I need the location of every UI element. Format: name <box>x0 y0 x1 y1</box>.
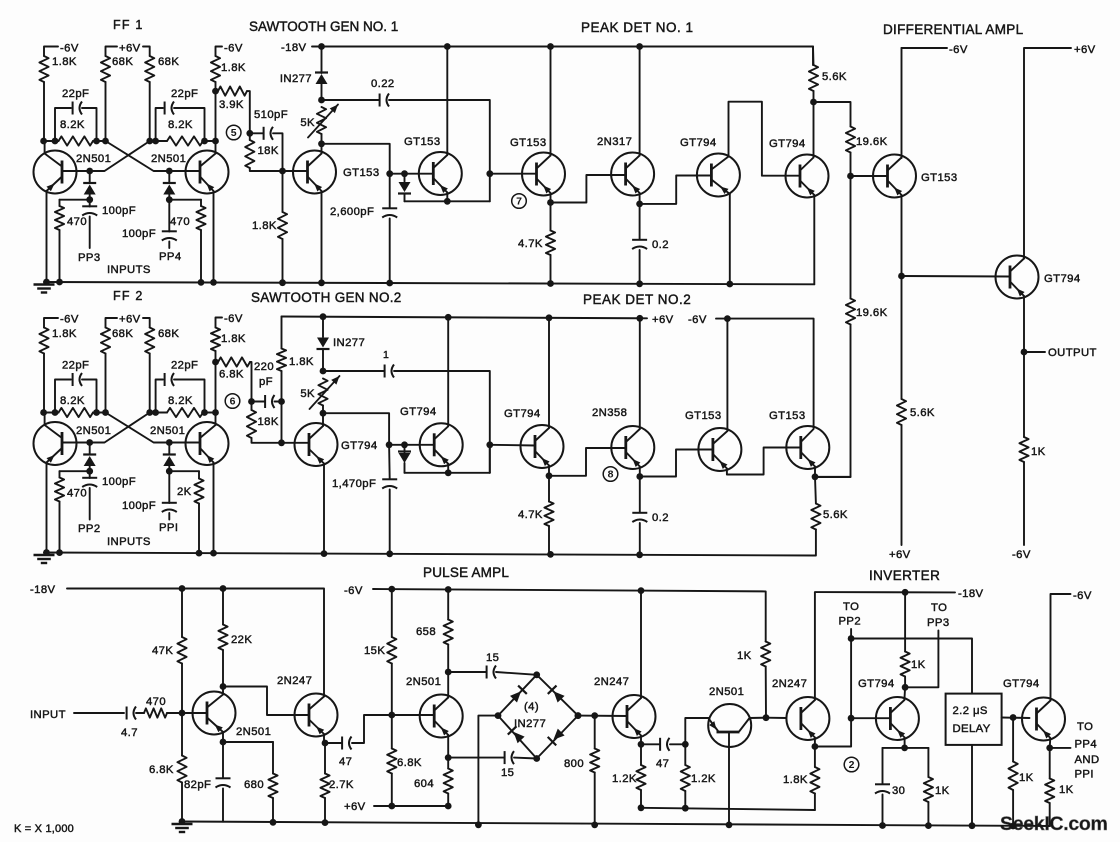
resistor 2K (FF2 right) <box>169 470 199 472</box>
wire collector to rail <box>639 318 641 429</box>
transistor 2N247 (bridge driver) <box>613 695 656 738</box>
wire <box>250 362 252 402</box>
svg-text:1.2K: 1.2K <box>612 773 637 785</box>
node 6 (circled) <box>225 394 240 409</box>
node dots top row rail <box>43 279 50 286</box>
wire emitter to rail <box>323 464 325 554</box>
svg-text:PP3: PP3 <box>78 252 101 264</box>
svg-text:2N247: 2N247 <box>594 676 629 688</box>
svg-text:+6V: +6V <box>344 801 366 813</box>
wire collector over to GT794 no2 base <box>729 102 801 176</box>
wire 2N501 bottom lead <box>728 732 730 825</box>
wire collector to +6V rail <box>447 317 449 426</box>
svg-text:PP3: PP3 <box>927 617 950 629</box>
svg-text:19.6K: 19.6K <box>856 307 888 319</box>
wire collector to 5.6K node <box>813 102 815 158</box>
node 8 (circled) <box>603 467 618 482</box>
svg-text:-6V: -6V <box>949 44 968 56</box>
resistor 1K (bridge driver load) <box>765 641 767 643</box>
svg-text:GT794: GT794 <box>341 440 378 452</box>
svg-text:68K: 68K <box>158 56 179 68</box>
resistor 1.8K (sawtooth 2 feed) <box>211 328 220 352</box>
capacitor 0.2 (peak det 2) <box>639 477 641 513</box>
resistor 1K (inverter 2 emitter) <box>1049 748 1051 779</box>
wire emitter <box>446 193 448 202</box>
resistor 1.8K (sawtooth 2 upper) <box>281 317 283 349</box>
transistor 2N247 (pulse ampl 1) <box>295 694 338 737</box>
resistor 1K (inverter emitter) <box>927 748 929 777</box>
wire 2N501 output lead <box>750 717 767 719</box>
resistor 19.6K (upper) <box>814 102 851 127</box>
svg-text:IN277: IN277 <box>333 337 365 349</box>
svg-text:68K: 68K <box>112 328 133 340</box>
svg-text:GT794: GT794 <box>680 137 717 149</box>
resistor 1K (inverter collector) <box>904 592 906 651</box>
svg-text:8.2K: 8.2K <box>60 119 85 131</box>
wire emitter <box>640 736 642 745</box>
svg-text:18K: 18K <box>258 416 279 428</box>
svg-text:100pF: 100pF <box>102 476 136 488</box>
svg-text:22K: 22K <box>231 634 252 646</box>
node 2 (circled) <box>844 757 859 772</box>
bridge diode top-left <box>510 691 521 702</box>
wire collector to node <box>215 413 217 426</box>
svg-text:AND: AND <box>1075 754 1100 766</box>
svg-text:PPI: PPI <box>1075 769 1094 781</box>
svg-text:GT153: GT153 <box>343 167 380 179</box>
svg-text:6.8K: 6.8K <box>219 369 244 381</box>
svg-text:1.2K: 1.2K <box>691 773 716 785</box>
wire emitter step to diff base <box>727 448 801 475</box>
resistor 680 <box>223 741 273 743</box>
transistor 2N247 (inverter) <box>786 697 829 740</box>
node 6.8K junction <box>212 359 219 366</box>
wire collector node to 1470pF branch <box>323 413 389 445</box>
svg-text:800: 800 <box>564 758 584 770</box>
wire coupling to 2N247 base <box>223 687 309 716</box>
resistor 18K (sawtooth 2) <box>251 402 253 411</box>
node dots middle row rail <box>43 549 50 556</box>
wire collector to -18V rail <box>814 592 816 700</box>
node diode top <box>401 170 408 177</box>
svg-text:4.7K: 4.7K <box>518 509 543 521</box>
svg-text:220: 220 <box>254 361 274 373</box>
net +6V (FF1) <box>106 47 118 57</box>
rail bottom (ground rail) <box>182 822 1050 827</box>
wire step to GT153 base <box>640 450 713 477</box>
capacitor 15 (lower) <box>504 751 506 764</box>
svg-text:2N247: 2N247 <box>772 678 807 690</box>
resistor 1.2K (right) <box>684 744 686 765</box>
svg-text:47: 47 <box>656 758 669 770</box>
svg-text:1K: 1K <box>911 659 926 671</box>
resistor 1.8K (sawtooth 1 bottom) <box>282 171 284 212</box>
rail top row bottom <box>44 282 814 284</box>
wire collector line FF1 right <box>150 140 167 142</box>
svg-text:100pF: 100pF <box>102 205 136 217</box>
svg-text:5.6K: 5.6K <box>910 407 935 419</box>
wire emitter node <box>814 467 816 477</box>
wire emitter down <box>901 195 903 276</box>
svg-text:+6V: +6V <box>119 314 141 326</box>
diode (sawtooth 1 clamp) <box>404 174 406 182</box>
wire emitter to rail <box>213 463 215 553</box>
wire emitter line sawtooth 1 <box>405 200 490 202</box>
svg-text:22pF: 22pF <box>62 88 89 100</box>
svg-text:GT153: GT153 <box>510 137 547 149</box>
diode (sawtooth 2 clamp) <box>404 445 406 453</box>
wire collector to node <box>215 141 217 154</box>
resistor 604 <box>447 758 449 769</box>
svg-text:+6V: +6V <box>652 314 674 326</box>
wire <box>149 82 151 141</box>
svg-text:GT794: GT794 <box>769 138 806 150</box>
svg-text:2N501: 2N501 <box>236 726 271 738</box>
capacitor 100pF (FF1 left) <box>89 200 91 207</box>
svg-text:TO: TO <box>843 601 859 613</box>
svg-text:604: 604 <box>414 778 434 790</box>
svg-text:2N501: 2N501 <box>76 425 111 437</box>
svg-text:IN277: IN277 <box>280 73 312 85</box>
wire collector to -18V rail <box>323 694 325 697</box>
svg-text:2N501: 2N501 <box>151 153 186 165</box>
resistor 68K (FF1 first) <box>101 56 110 82</box>
svg-text:-18V: -18V <box>958 588 984 600</box>
svg-text:INPUTS: INPUTS <box>107 264 151 276</box>
svg-text:1.8K: 1.8K <box>52 328 77 340</box>
wire collector <box>322 413 324 426</box>
svg-text:DIFFERENTIAL AMPL: DIFFERENTIAL AMPL <box>883 22 1024 37</box>
svg-text:2N501: 2N501 <box>76 153 111 165</box>
svg-text:1.8K: 1.8K <box>52 56 77 68</box>
wire emitter <box>550 193 552 203</box>
svg-text:pF: pF <box>259 376 273 388</box>
capacitor 47 (coupling) <box>341 737 343 750</box>
svg-text:6.8K: 6.8K <box>397 757 422 769</box>
wire collector to -6V rail <box>640 591 642 698</box>
svg-text:22pF: 22pF <box>171 360 198 372</box>
svg-text:1,470pF: 1,470pF <box>332 478 376 490</box>
wire emitter to rail <box>729 194 731 284</box>
resistor 18K (sawtooth 1) <box>249 133 251 140</box>
svg-text:OUTPUT: OUTPUT <box>1048 347 1097 359</box>
wire <box>247 91 250 133</box>
transistor GT153 (sawtooth 1 no2) <box>419 152 462 195</box>
transistor GT794 (emitter follower no2) <box>786 155 829 198</box>
svg-text:+6V: +6V <box>119 43 141 55</box>
transistor GT794 (inverter 2) <box>1022 698 1065 741</box>
svg-text:GT153: GT153 <box>685 410 722 422</box>
wire collector to -6V rail <box>726 319 728 431</box>
svg-text:TO: TO <box>1077 721 1093 733</box>
node FF2 left base <box>86 439 93 446</box>
bridge diode bottom-left <box>514 732 525 743</box>
wire emitter <box>639 467 641 477</box>
wire <box>215 351 217 362</box>
potentiometer 5K (sawtooth 1) <box>317 107 326 134</box>
resistor 4.7K (peak det 2) <box>548 476 550 502</box>
svg-text:2: 2 <box>849 759 855 771</box>
svg-text:5.6K: 5.6K <box>822 71 847 83</box>
rail (1.2K commons) <box>641 808 815 810</box>
svg-text:2.2 μS: 2.2 μS <box>953 705 988 717</box>
svg-text:2N501: 2N501 <box>150 425 185 437</box>
svg-text:15K: 15K <box>364 645 385 657</box>
wire step to 2N358 base <box>549 448 626 476</box>
svg-text:100pF: 100pF <box>122 500 156 512</box>
transistor GT794 (peak det 1) <box>697 154 740 197</box>
wire emitter down right rail end <box>813 195 815 284</box>
wire <box>215 82 217 91</box>
svg-text:22pF: 22pF <box>171 88 198 100</box>
svg-text:1K: 1K <box>1059 784 1074 796</box>
svg-text:2N247: 2N247 <box>277 675 312 687</box>
wire 2N501 base-one lead <box>685 718 708 744</box>
svg-text:5K: 5K <box>300 117 315 129</box>
svg-text:-6V: -6V <box>60 43 79 55</box>
rail middle row bottom <box>44 530 816 556</box>
node dots FF1 right line <box>146 138 153 145</box>
svg-text:8.2K: 8.2K <box>168 119 193 131</box>
net -6V (sawtooth 1) <box>216 47 223 57</box>
wire to 2N247 inverter base <box>766 717 786 719</box>
svg-text:+6V: +6V <box>1074 44 1096 56</box>
rail +6V / -6V (middle) <box>282 317 648 319</box>
capacitor 100pF (FF1 right) <box>168 200 170 232</box>
svg-text:8.2K: 8.2K <box>168 395 193 407</box>
resistor 1.8K (FF1 left) <box>39 56 48 82</box>
svg-text:680: 680 <box>244 779 264 791</box>
svg-text:SAWTOOTH GEN NO.2: SAWTOOTH GEN NO.2 <box>251 290 402 305</box>
delay box 2.2uS DELAY <box>946 694 1002 745</box>
wire emitter to rail <box>213 191 215 282</box>
svg-text:1K: 1K <box>1019 772 1034 784</box>
wire collector <box>903 687 906 700</box>
node GT794 base (sawtooth 2) <box>278 439 285 446</box>
bridge diode bottom-right <box>553 729 564 740</box>
capacitor 100pF (FF2 right) <box>168 471 170 503</box>
svg-text:PP4: PP4 <box>1075 739 1098 751</box>
wire collector line FF2 left <box>44 412 59 414</box>
svg-text:470: 470 <box>170 216 190 228</box>
svg-text:2.7K: 2.7K <box>329 779 354 791</box>
wire <box>43 82 45 141</box>
wire to 2N501 base <box>167 712 207 714</box>
svg-text:K = X 1,000: K = X 1,000 <box>14 823 74 835</box>
resistor 1.8K (inverter) <box>814 747 816 768</box>
svg-text:PPI: PPI <box>159 522 178 534</box>
wire emitter <box>814 738 816 747</box>
capacitor 47 (bridge stage) <box>659 738 661 751</box>
wire collector <box>222 687 224 695</box>
svg-text:18K: 18K <box>258 145 279 157</box>
svg-text:5: 5 <box>231 127 237 139</box>
wire emitter <box>447 464 449 473</box>
svg-text:GT794: GT794 <box>858 678 895 690</box>
svg-text:TO: TO <box>931 602 947 614</box>
svg-text:IN277: IN277 <box>514 718 546 730</box>
resistor 5.6K (peak det 1 top) <box>812 47 815 66</box>
transistor 2N501 (pulse ampl 2) <box>420 695 463 738</box>
svg-text:2K: 2K <box>177 486 192 498</box>
wire collector <box>447 672 449 698</box>
wire <box>43 354 45 413</box>
resistor 3.9K <box>218 87 247 96</box>
svg-text:DELAY: DELAY <box>953 723 991 735</box>
svg-text:GT794: GT794 <box>504 408 541 420</box>
node dots FF2 left line <box>40 409 47 416</box>
svg-text:47: 47 <box>339 756 352 768</box>
svg-text:+6V: +6V <box>889 549 911 561</box>
svg-text:4.7K: 4.7K <box>518 238 543 250</box>
svg-text:-18V: -18V <box>281 42 307 54</box>
wire collector to +6V <box>1024 48 1071 259</box>
transistor GT794 (peak det 2) <box>521 425 564 468</box>
svg-text:FF 1: FF 1 <box>113 18 144 32</box>
transistor 2N317 <box>611 153 654 196</box>
wire collector to node <box>44 141 46 154</box>
svg-text:1.8K: 1.8K <box>252 220 277 232</box>
svg-text:5K: 5K <box>300 388 315 400</box>
net -6V (FF2) <box>44 318 58 328</box>
svg-text:0.2: 0.2 <box>652 239 669 251</box>
wire delay box bottom to ground rail <box>971 745 973 826</box>
svg-text:2N501: 2N501 <box>709 686 744 698</box>
rail -18V (pulse ampl left) <box>67 589 324 695</box>
svg-text:8: 8 <box>608 469 614 481</box>
rail -18V (inverter) <box>816 591 955 593</box>
resistor 470 (FF2) <box>60 470 90 472</box>
node 7 (circled) <box>512 194 527 209</box>
node FF1 left base <box>86 168 93 175</box>
wire PP2 node to delay box <box>851 639 972 694</box>
diode (FF2 right input) <box>168 443 170 455</box>
ground (bottom) <box>172 823 193 825</box>
net -6V (diff ampl) <box>902 47 948 49</box>
wire collector to +6V rail <box>548 318 550 428</box>
svg-text:SeekIC.com: SeekIC.com <box>1000 813 1108 835</box>
svg-text:68K: 68K <box>158 328 179 340</box>
diode 1N277 (sawtooth 2) <box>322 317 324 337</box>
wire emitter <box>222 732 224 742</box>
svg-text:-6V: -6V <box>60 314 79 326</box>
transistor GT794 (sawtooth 2 no1) <box>295 423 338 466</box>
wire collector to rail <box>639 47 641 156</box>
svg-text:INVERTER: INVERTER <box>869 568 940 583</box>
node GT153 collector <box>321 134 323 144</box>
svg-text:1.8K: 1.8K <box>221 62 246 74</box>
transistor 2N501 (input stage) <box>193 692 236 735</box>
node 0.22 takeoff <box>318 97 325 104</box>
capacitor 82pF <box>222 742 224 778</box>
resistor 1.8K (sawtooth 1 top) <box>211 56 220 82</box>
svg-text:GT794: GT794 <box>400 406 437 418</box>
ground (FF2) <box>34 554 55 556</box>
svg-text:-18V: -18V <box>30 584 56 596</box>
wire base GT794 inverter <box>851 717 890 719</box>
node cap takeoff (sawtooth 2) <box>320 368 327 375</box>
svg-text:1K: 1K <box>1031 446 1046 458</box>
svg-text:1K: 1K <box>935 785 950 797</box>
resistor 470 (input) <box>144 708 167 717</box>
svg-text:5.6K: 5.6K <box>823 509 848 521</box>
wire to GT153 diff base <box>851 175 888 177</box>
node 510pF left <box>246 130 253 137</box>
node OUTPUT <box>1023 296 1025 352</box>
node GT794 collector (sawtooth 2) <box>322 406 324 414</box>
diode 1N277 (sawtooth 1) <box>321 47 323 74</box>
node GT153 base <box>279 168 286 175</box>
svg-text:15: 15 <box>486 652 499 664</box>
wire step to 2N317 base <box>551 175 626 203</box>
svg-text:8.2K: 8.2K <box>60 395 85 407</box>
svg-text:GT153: GT153 <box>769 410 806 422</box>
svg-text:1K: 1K <box>737 650 752 662</box>
net -6V (sawtooth 2) <box>216 318 223 328</box>
svg-text:-6V: -6V <box>1073 590 1092 602</box>
svg-text:6: 6 <box>230 396 236 408</box>
svg-text:1: 1 <box>383 349 389 361</box>
bridge rectifier (4) IN277 <box>498 675 578 759</box>
resistor 68K (FF2 first) <box>101 328 110 354</box>
wire emitter <box>447 735 449 758</box>
node 5 (circled) <box>226 125 241 140</box>
node bridge right vertex <box>575 712 582 719</box>
bridge diode top-right <box>554 691 565 702</box>
resistor 68K (FF2 second) <box>145 328 154 354</box>
capacitor 30 <box>882 748 884 784</box>
wire <box>901 48 903 158</box>
wire base line to diode node (sawtooth 2) <box>389 444 434 446</box>
svg-text:GT153: GT153 <box>921 172 958 184</box>
wire collector line FF2 right <box>150 412 167 414</box>
resistor 470 (FF1 left) <box>60 199 90 201</box>
svg-text:470: 470 <box>67 216 87 228</box>
wire column down <box>215 362 217 413</box>
svg-text:-6V: -6V <box>224 43 243 55</box>
wire base GT153 no1 <box>283 170 308 172</box>
wire cross-coupling FF2 <box>106 413 201 443</box>
svg-text:-6V: -6V <box>344 585 363 597</box>
transistor GT153 (diff ampl upper) <box>873 155 916 198</box>
svg-text:100pF: 100pF <box>122 228 156 240</box>
svg-text:15: 15 <box>501 767 514 779</box>
rail -18V top <box>322 47 814 66</box>
svg-text:2N317: 2N317 <box>597 136 632 148</box>
wire emitter to rail <box>321 191 323 283</box>
wire collector to node <box>44 413 46 426</box>
svg-text:19.6K: 19.6K <box>856 136 888 148</box>
svg-text:22pF: 22pF <box>62 360 89 372</box>
resistor 6.8K (pulse ampl) <box>391 715 393 749</box>
svg-text:1.8K: 1.8K <box>289 356 314 368</box>
resistor 19.6K (lower) <box>850 176 852 299</box>
svg-text:470: 470 <box>67 488 87 500</box>
svg-text:(4): (4) <box>524 701 539 713</box>
resistor 1.2K (left) <box>640 744 642 765</box>
wire collector to top rail <box>446 47 448 156</box>
svg-text:7: 7 <box>516 196 522 208</box>
wire to peak det 1 <box>490 173 537 175</box>
wire base line to diode node <box>390 173 434 175</box>
svg-text:82pF: 82pF <box>184 779 211 791</box>
svg-text:1.8K: 1.8K <box>221 333 246 345</box>
net -6V (inverter) <box>1051 594 1071 701</box>
svg-text:0.2: 0.2 <box>652 512 669 524</box>
svg-text:GT794: GT794 <box>1044 273 1081 285</box>
node 220pF left <box>248 398 255 405</box>
wire emitter to rail <box>46 191 48 282</box>
